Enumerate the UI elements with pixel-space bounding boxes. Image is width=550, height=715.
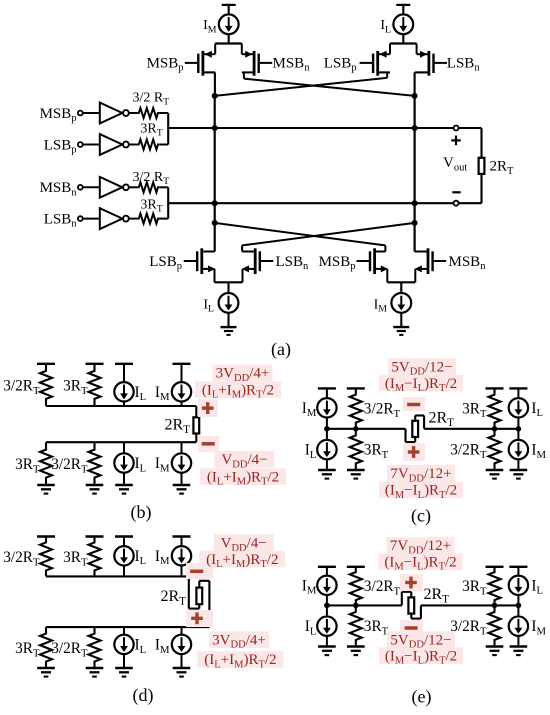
wire right rail (c): [424, 428, 518, 430]
annotation bottom voltage (d) line1: [209, 631, 269, 648]
transistor MSBp bottom (NMOS): [357, 248, 389, 282]
label minus sign (e): [400, 620, 423, 635]
wire MSBp drain elbow: [384, 245, 386, 251]
resistor 3RT (c bottom): [350, 429, 362, 470]
wire IM to pair: [228, 34, 230, 43]
label plus sign (b): [198, 399, 218, 417]
resistor 3RT (e bottom): [350, 605, 362, 646]
terminal input MSBn: [78, 185, 83, 190]
resistor 3RT (b bottom): [40, 442, 52, 485]
ground IL: [221, 326, 237, 328]
annotation top voltage (c) line1: [388, 358, 456, 375]
annotation bottom voltage (c) line2: [379, 482, 463, 499]
wire crossing LSBp drain to left bus: [215, 78, 388, 96]
node rail (e) x=518.4: [516, 603, 522, 609]
annotation top voltage (b) line2: [195, 381, 281, 398]
ground (e) x=494.5: [486, 645, 504, 648]
svg-text:MSBp​: MSBp​: [147, 55, 184, 73]
supply bar over IL (b top): [115, 363, 133, 365]
ground (c) x=326.9: [318, 469, 336, 472]
resistor 2RT (d): [196, 588, 202, 605]
wire MSBn drain from right bus: [415, 251, 428, 253]
resistor 3RT row LSBn: [137, 214, 159, 224]
wire top rail (b): [46, 405, 196, 407]
ground (c) x=494.5: [486, 469, 504, 472]
label minus sign (b): [198, 436, 219, 452]
inverter MSBn: [100, 177, 123, 198]
terminal Vout plus: [454, 126, 459, 131]
current source IL (e top-right): [509, 567, 528, 606]
node rail (e) x=355.8: [353, 603, 359, 609]
annotation top voltage (e) line2: [379, 553, 463, 570]
wire resistor to join LSBn: [159, 218, 168, 220]
wire input to inverter LSBn: [83, 218, 100, 220]
ground IM (b): [173, 484, 191, 487]
supply bar (e) x=518.4: [509, 566, 527, 568]
wire right bus: [414, 96, 416, 252]
wire crossing left dot to right pair: [215, 223, 386, 246]
supply bar (e) x=326.9: [318, 566, 336, 568]
wire MSBn drain elbow: [243, 72, 245, 78]
wire LSBp drain from left bus: [203, 251, 215, 253]
current source IL (b bottom): [114, 442, 133, 485]
wire left rail (e): [327, 604, 402, 606]
current source IM (d top): [172, 537, 191, 577]
supply bar over 3RT (b top): [86, 363, 104, 365]
resistor 3RT (e top): [489, 567, 501, 606]
wire join bar upper: [167, 113, 169, 145]
wire 2RT top jog (d): [198, 581, 200, 588]
node right bus rail2: [412, 200, 418, 206]
wire bottom rail (b): [46, 441, 196, 443]
current source IL (e bottom-left): [317, 605, 336, 646]
supply bar (c) x=494.5: [486, 387, 504, 389]
supply bar over IM (d top): [173, 535, 191, 537]
transistor LSBp bottom (NMOS): [184, 248, 216, 282]
transistor MSBp top (PMOS): [185, 44, 215, 76]
supply bar (c) x=518.4: [509, 387, 527, 389]
resistor 3/2RT (e top): [350, 567, 362, 606]
wire crossing right dot to left pair: [242, 223, 415, 246]
annotation top voltage (c) line2: [379, 375, 463, 392]
annotation bottom voltage (d) line2: [197, 651, 283, 668]
wire inverter to resistor LSBp: [129, 144, 137, 146]
current source IM (d bottom): [172, 627, 191, 668]
wire jog right (e): [410, 614, 412, 619]
wire input to inverter MSBp: [83, 112, 100, 114]
wire inverter to resistor LSBn: [129, 218, 137, 220]
wire input to inverter MSBn: [83, 186, 100, 188]
transistor MSBn top (PMOS): [242, 44, 272, 76]
label plus sign (c): [403, 443, 425, 461]
transistor LSBp top (PMOS): [360, 44, 390, 76]
wire jog left (e): [401, 592, 403, 606]
resistor 2RT (c): [412, 421, 418, 437]
supply bar VDD for IL: [396, 4, 410, 6]
wire right rail (e): [421, 604, 519, 606]
current source IL (bottom): [219, 293, 239, 313]
label minus output: [452, 191, 460, 193]
terminal input MSBp: [78, 111, 83, 116]
wire inverter to resistor MSBp: [129, 112, 137, 114]
node rail (c) x=494.5: [492, 426, 498, 432]
resistor 3/2 RT row MSBp: [137, 108, 159, 118]
wire LSBp drain elbow: [386, 72, 388, 77]
current source IL (c bottom-left): [317, 429, 336, 470]
ground 3/2RT (d): [86, 667, 104, 670]
annotation bottom voltage (e) line1: [387, 631, 455, 648]
wire rail down jog (d): [188, 576, 190, 608]
resistor 3/2RT (c top): [350, 388, 362, 428]
resistor 3RT (c top): [489, 388, 501, 428]
resistor 3/2RT (e bottom): [489, 605, 501, 646]
wire tail to current source: [227, 282, 229, 293]
ground 3/2RT (b): [86, 484, 104, 487]
annotation bottom voltage (e) line2: [379, 647, 463, 664]
label plus output: [451, 139, 461, 141]
wire inverter to resistor MSBn: [129, 186, 137, 188]
resistor 3/2RT (b bottom): [89, 442, 101, 485]
ground IM (d): [173, 667, 191, 670]
label minus sign (c): [403, 397, 425, 411]
wire resistor to join MSBn: [159, 186, 168, 188]
node rail (c) x=518.4: [516, 426, 522, 432]
ground IM: [393, 326, 409, 328]
resistor 3/2RT (c bottom): [489, 429, 501, 470]
wire IL to ground: [227, 313, 229, 327]
current source IM (c bottom-right): [509, 429, 528, 470]
label plus sign (d): [186, 610, 213, 627]
supply bar over 3/2RT (b top): [37, 363, 55, 365]
wire supply to IM: [228, 5, 230, 15]
current source IL (c top-right): [509, 388, 528, 428]
supply bar (c) x=355.8: [347, 387, 365, 389]
node right bus top: [412, 93, 418, 99]
current source IM (top): [219, 14, 239, 34]
annotation bottom voltage (b) line2: [200, 468, 286, 485]
annotation top voltage (b) line1: [213, 365, 273, 382]
current source IM (e bottom-right): [509, 605, 528, 646]
wire tail bar: [387, 281, 415, 283]
current source IM (c top-left): [317, 388, 336, 428]
node left bus bottom: [212, 220, 218, 226]
terminal input LSBp: [78, 142, 83, 147]
supply bar (e) x=494.5: [486, 566, 504, 568]
wire IL to pair: [402, 34, 404, 43]
transistor MSBn bottom (NMOS): [415, 248, 447, 282]
resistor 2RT load: [479, 158, 485, 174]
inverter LSBn: [100, 208, 123, 229]
wire tail to current source: [400, 282, 402, 293]
wire join bar lower: [167, 187, 169, 218]
node right bus bottom: [412, 220, 418, 226]
wire IM to ground: [400, 313, 402, 327]
current source IL (d bottom): [114, 627, 133, 668]
node rail (c) x=355.8: [353, 426, 359, 432]
node left bus top: [212, 93, 218, 99]
supply bar over 3/2RT (d top): [37, 535, 55, 537]
current source IL (d top): [114, 537, 133, 577]
resistor 3/2RT (d bottom): [89, 627, 101, 668]
ground (e) x=518.4: [510, 645, 528, 648]
terminal Vout minus: [454, 201, 459, 206]
terminal input LSBn: [78, 216, 83, 221]
annotation top voltage (e) line1: [387, 537, 455, 554]
supply bar (e) x=355.8: [347, 566, 365, 568]
annotation bottom voltage (c) line1: [387, 465, 455, 482]
label minus sign (d): [186, 563, 213, 579]
wire crossing MSBn drain to right bus: [244, 79, 415, 96]
resistor 3RT (d bottom): [40, 627, 52, 668]
current source IM (b top): [172, 364, 191, 406]
node rail (e) x=326.9: [324, 603, 330, 609]
resistor 3/2RT (d top): [40, 537, 52, 577]
annotation bottom voltage (b) line1: [215, 451, 275, 468]
current source IL (top): [393, 14, 413, 34]
wire resistor to join LSBp: [159, 144, 168, 146]
ground 3RT (d): [37, 667, 55, 670]
wire supply to IL: [402, 5, 404, 15]
label plus sign (e): [400, 574, 423, 591]
current source IL (b top): [114, 364, 133, 406]
wire tail bar: [215, 281, 243, 283]
wire bottom rail (d): [46, 626, 209, 628]
node rail (c) x=326.9: [324, 426, 330, 432]
transistor LSBn top (PMOS): [417, 44, 447, 76]
wire rail minus: [168, 202, 454, 204]
resistor 2RT (b): [193, 417, 199, 433]
svg-text:(a): (a): [271, 339, 291, 360]
svg-text:(d): (d): [133, 685, 154, 706]
transistor LSBn bottom (NMOS): [242, 248, 273, 282]
wire 2RT to bottom rail (b): [195, 434, 197, 443]
svg-text:(c): (c): [411, 506, 431, 527]
supply bar over IM (b top): [173, 363, 191, 365]
supply bar (c) x=326.9: [318, 387, 336, 389]
current source IM (bottom): [391, 293, 411, 313]
supply bar VDD for IM: [222, 4, 236, 6]
ground (e) x=326.9: [318, 645, 336, 648]
svg-text:MSBp​: MSBp​: [319, 254, 356, 272]
wire jog left (c): [404, 429, 406, 442]
ground (e) x=355.8: [347, 645, 365, 648]
wire input to inverter LSBp: [83, 144, 100, 146]
resistor 3/2RT (b top): [40, 364, 52, 406]
wire source bar of pair: [215, 42, 242, 44]
wire LSBn drain elbow: [241, 245, 243, 251]
resistor 3/2 RT row MSBn: [137, 182, 159, 192]
ground 3RT (b): [37, 484, 55, 487]
svg-text:MSBp​: MSBp​: [40, 106, 77, 124]
wire LSBn drain to right bus: [414, 72, 416, 96]
wire left rail (c): [327, 428, 406, 430]
wire resistor to join MSBp: [159, 112, 168, 114]
inverter MSBp: [100, 103, 123, 124]
node right bus rail1: [412, 125, 418, 131]
node left bus rail2: [212, 200, 218, 206]
wire plus terminal to load: [459, 127, 482, 129]
supply bar over 3RT (d top): [86, 535, 104, 537]
svg-text:(b): (b): [131, 502, 152, 523]
node left bus rail1: [212, 125, 218, 131]
resistor 3RT (b top): [89, 364, 101, 406]
current source IM (b bottom): [172, 442, 191, 485]
svg-text:(e): (e): [412, 687, 432, 708]
ground IL (d): [115, 667, 133, 670]
ground (c) x=518.4: [510, 469, 528, 472]
wire rail plus: [168, 127, 454, 129]
wire jog right (c): [414, 416, 416, 421]
resistor 3RT row LSBp: [137, 140, 159, 150]
wire source bar of pair: [390, 42, 417, 44]
resistor 2RT (e): [408, 597, 414, 613]
wire rail to 2RT (b): [195, 406, 197, 417]
ground (c) x=355.8: [347, 469, 365, 472]
wire MSBp drain to left bus: [214, 72, 216, 96]
wire top rail (d): [46, 575, 189, 577]
wire load to minus terminal: [480, 174, 482, 203]
resistor 3RT (d top): [89, 537, 101, 577]
ground IL (b): [115, 484, 133, 487]
annotation top voltage (d) line1: [214, 535, 274, 552]
inverter LSBp: [100, 134, 123, 155]
wire left bus: [214, 96, 216, 252]
annotation top voltage (d) line2: [199, 551, 285, 568]
node rail (e) x=494.5: [492, 603, 498, 609]
current source IM (e top-left): [317, 567, 336, 606]
supply bar over IL (d top): [115, 535, 133, 537]
